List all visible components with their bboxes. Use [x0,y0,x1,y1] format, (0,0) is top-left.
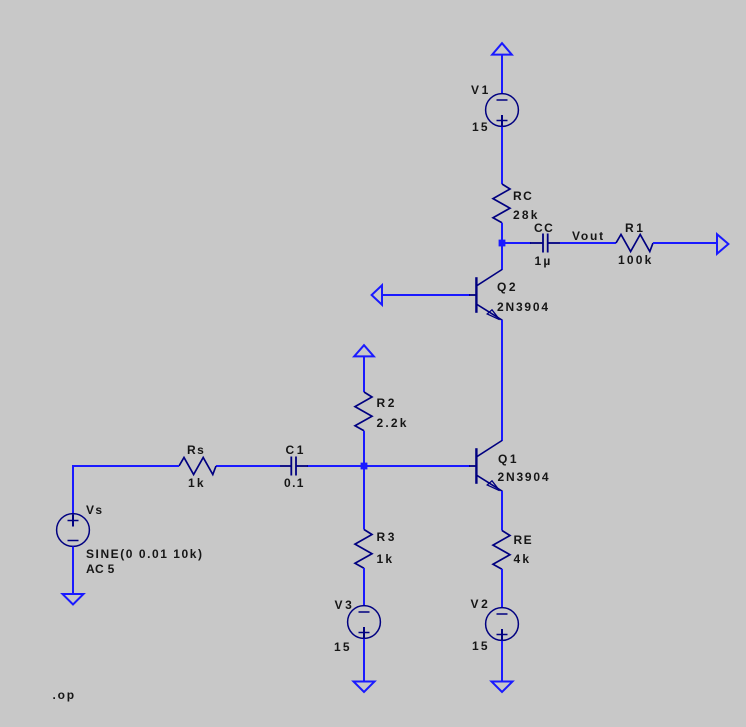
value 2N3904 of Q1 [498,471,551,483]
label Vs [86,504,103,516]
value 100k of R1 [618,254,654,266]
wire CC to R1 (net Vout) [560,242,616,244]
wire node to CC [502,242,531,244]
resistor RE [493,531,510,570]
value SINE of Vs [86,548,204,560]
wire V2 to ground [501,641,503,682]
spice directive .op [53,689,76,701]
label V2 [471,598,491,610]
value 1u of CC [535,255,553,267]
power flag VCC top [492,43,512,54]
voltage source V3 [348,606,381,639]
value 0.1 of C1 [284,477,305,489]
net label Vout [572,230,605,242]
ground flag under V3 [354,682,375,693]
capacitor C1 [279,457,308,476]
voltage source V1 [486,94,519,127]
wire Rs to C1 [216,465,280,467]
resistor Rs [179,458,216,475]
wire Q1 emitter to RE [501,491,503,531]
resistor R1 [616,235,653,252]
voltage source V2 [486,608,519,641]
value 2.2k of R2 [377,417,409,429]
label C1 [286,444,307,456]
wire C1 to node [307,465,364,467]
label RC [513,190,533,202]
capacitor CC [530,234,561,253]
label Rs [187,444,205,456]
wire RE to V2 [501,569,503,608]
wire R2 to base node [363,431,365,466]
output port flag (right arrow) [717,234,728,254]
label RE [514,534,533,546]
label CC [534,222,554,234]
wire flag to V1 [501,55,503,94]
wire V1 to RC [501,127,503,184]
wire flag to R2 [363,356,365,392]
value 15 of V1 [472,121,490,133]
value 2N3904 of Q2 [497,301,550,313]
label Q2 [497,281,518,293]
ground flag under Vs [63,594,84,605]
value 15 of V3 [334,641,352,653]
value 28k of RC [513,209,540,221]
resistor RC [493,184,510,223]
junction base node [361,463,368,470]
label V3 [335,599,355,611]
wire Vs to ground [72,547,74,595]
transistor Q2 2N3904 [469,270,502,321]
label R3 [377,531,398,543]
ground flag under V2 [492,682,513,693]
input port flag at Q2 base (left arrow) [372,285,382,305]
label V1 [471,84,491,96]
value AC 5 of Vs [86,563,115,575]
label R2 [377,397,398,409]
wire node to R3 [363,466,365,530]
resistor R3 [355,530,372,569]
wire R1 to output pin [653,242,717,244]
label R1 [625,222,646,234]
wire R3 to V3 [363,568,365,606]
junction node Vc [499,240,506,247]
value 4k of RE [514,553,532,565]
wire node to Q1 base [364,465,470,467]
wire flag to Q2 base [382,294,470,296]
wire Q2 emitter to Q1 collector [501,320,503,441]
value 15 of V2 [472,640,490,652]
wire RC to node [501,223,503,270]
resistor R2 [355,392,372,431]
wire V3 to ground [363,639,365,682]
value 1k of Rs [188,477,206,489]
transistor Q1 2N3904 [469,441,502,492]
value 1k of R3 [377,553,395,565]
voltage source Vs [57,514,90,547]
power flag above R2 [354,345,374,356]
wire Vs corner to Rs [73,466,179,514]
label Q1 [498,453,519,465]
